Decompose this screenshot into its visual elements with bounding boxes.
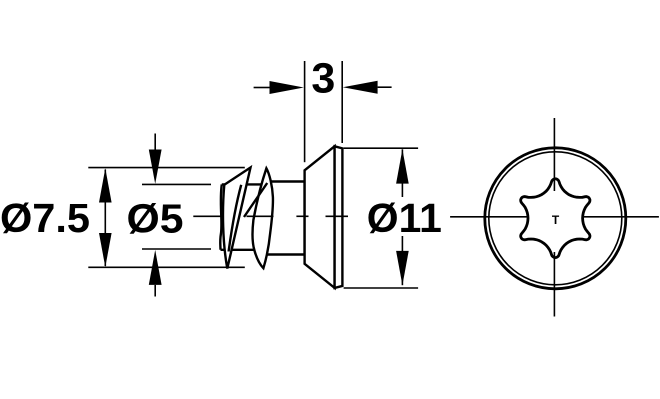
svg-text:Ø7.5: Ø7.5 (0, 195, 90, 241)
svg-text:3: 3 (311, 55, 335, 103)
svg-text:Ø11: Ø11 (367, 195, 442, 241)
svg-text:Ø5: Ø5 (127, 196, 184, 242)
svg-text:T: T (552, 213, 560, 227)
